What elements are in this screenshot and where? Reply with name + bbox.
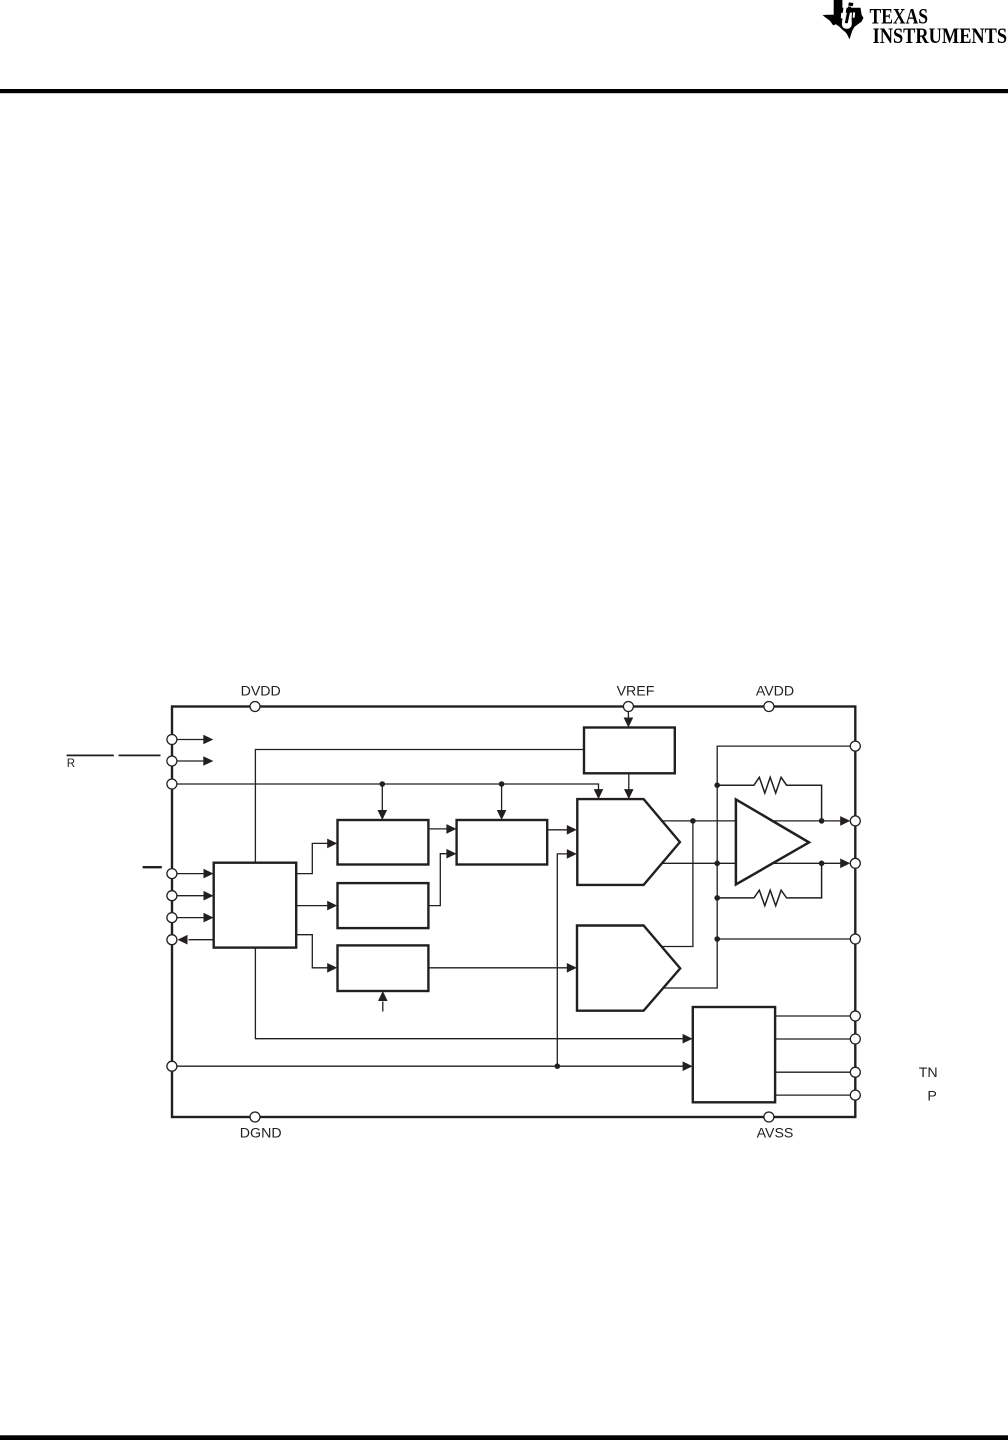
arrow into interface pin1	[204, 869, 214, 879]
wire box4 to DAC2	[428, 967, 568, 969]
pin right 7	[850, 1067, 860, 1077]
arrow stub1	[203, 735, 213, 745]
wire interface to box1	[296, 843, 328, 873]
svg-text:P: P	[927, 1089, 936, 1105]
power control block U5	[693, 1007, 775, 1102]
register box3	[338, 883, 429, 928]
DAC U4	[577, 926, 680, 1011]
DAC U3	[577, 799, 680, 885]
pin right 5	[850, 1011, 860, 1021]
arrow into DAC2	[567, 963, 577, 973]
wire DAC1 output P to amplifier and pin	[663, 820, 841, 822]
wire input stub 2 (RST)	[177, 760, 204, 762]
svg-text:TN: TN	[919, 1065, 938, 1081]
pin left 5	[167, 891, 177, 901]
wire power block output 3	[775, 1071, 855, 1073]
pin left 7	[167, 935, 177, 945]
wire clock stub into box4	[382, 1002, 384, 1012]
junction bottom control line	[555, 1063, 561, 1069]
arrow out of interface	[178, 935, 188, 945]
junction R1 right at output P	[819, 818, 825, 824]
wire input stub 1	[177, 739, 204, 741]
wire node to DAC1 lower input	[557, 854, 568, 1066]
wire DAC2 upper output to node P	[662, 821, 693, 947]
wire control net from reference box to power block	[255, 750, 683, 1039]
TI logo	[823, 0, 1008, 48]
serial interface box U1	[214, 863, 297, 948]
pin AVSS	[764, 1112, 774, 1122]
overbar segment 2 of RST label	[119, 755, 161, 757]
wire mid output pin	[717, 938, 855, 940]
pin left 6	[167, 913, 177, 923]
pin right 6	[850, 1034, 860, 1044]
wire VREF pin to reference box	[627, 712, 629, 718]
arrow output N	[840, 859, 850, 869]
wire power block output 4	[775, 1094, 855, 1096]
arrow down into box1 top	[378, 810, 388, 820]
wire power block output 1	[775, 1015, 855, 1017]
arrow stub2	[203, 756, 213, 766]
arrow into DAC1 lower	[567, 849, 577, 859]
pin right 8	[850, 1090, 860, 1100]
wire interface to box3	[296, 905, 328, 907]
wire reference box to DAC1	[628, 773, 630, 789]
resistor R2 feedback	[717, 863, 821, 905]
pin right 4	[850, 934, 860, 944]
svg-text:AVSS: AVSS	[757, 1125, 794, 1141]
arrow into DAC1 upper	[567, 825, 577, 835]
pin DVDD	[250, 702, 260, 712]
pin right 2 output P	[850, 816, 860, 826]
overbar dash of left pin 4 label	[143, 866, 162, 868]
wire left pin 4 to interface	[177, 873, 204, 875]
arrow into box2 upper	[446, 824, 456, 834]
register box4	[338, 945, 429, 991]
arrow into box3 left	[327, 901, 337, 911]
svg-text:DGND: DGND	[240, 1125, 282, 1141]
svg-text:DVDD: DVDD	[241, 684, 281, 700]
junction feedback R2 left	[714, 895, 720, 901]
junction node DAC2 to line P	[690, 818, 696, 824]
pin DGND	[250, 1112, 260, 1122]
pin VREF	[623, 702, 633, 712]
junction feedback R1 left	[714, 782, 720, 788]
junction on data bus at box1	[380, 781, 386, 787]
arrow into box2 lower	[446, 849, 456, 859]
wire DAC1 output N to amplifier and pin	[662, 862, 841, 864]
arrow into box1 left	[327, 839, 337, 849]
arrow into interface pin2	[204, 891, 214, 901]
arrow down into DAC1 top b	[624, 789, 634, 799]
pin left 2 RST	[167, 756, 177, 766]
resistor R1 feedback	[717, 777, 821, 821]
wire interface output to pin	[189, 939, 214, 941]
wire interface to box4	[296, 935, 328, 968]
pin AVDD	[764, 702, 774, 712]
svg-text:VREF: VREF	[617, 684, 655, 700]
arrow down into box2 top	[497, 810, 507, 820]
wire power block output 2	[775, 1038, 855, 1040]
pin left 8	[167, 1061, 177, 1071]
pin left 4	[167, 869, 177, 879]
arrow into power block upper	[683, 1034, 693, 1044]
arrow into interface pin3	[204, 913, 214, 923]
junction R2 right at output N	[819, 861, 825, 867]
junction mid pin line	[714, 936, 720, 942]
pin left 3	[167, 779, 177, 789]
wire box2 to DAC1	[547, 829, 568, 831]
register box2	[457, 820, 548, 865]
arrow output P	[840, 816, 850, 826]
arrow into box4 left	[327, 963, 337, 973]
overbar segment 1 of RST label	[67, 755, 114, 757]
pin right 3 output N	[850, 858, 860, 868]
pin right 1	[850, 741, 860, 751]
pin left 1	[167, 735, 177, 745]
svg-text:R: R	[67, 758, 75, 770]
wire box3 to box2	[428, 854, 447, 906]
junction on data bus at box2	[499, 781, 505, 787]
chip boundary	[172, 707, 855, 1118]
wire left pin 5 to interface	[177, 895, 204, 897]
wire data input bus to registers	[177, 784, 599, 811]
wire left pin 6 to interface	[177, 917, 204, 919]
wire box1 to box2	[428, 828, 447, 830]
junction line N	[714, 861, 720, 867]
arrow up into box4 bottom	[378, 991, 388, 1001]
register box1	[338, 820, 429, 865]
reference box U2	[584, 728, 675, 774]
wire right top pin net	[664, 746, 856, 988]
arrow down into reference box	[624, 718, 634, 728]
svg-text:AVDD: AVDD	[756, 684, 794, 700]
svg-text:INSTRUMENTS: INSTRUMENTS	[873, 23, 1008, 48]
arrow down into DAC1 top a	[594, 789, 604, 799]
arrow into power block lower	[683, 1061, 693, 1071]
wire bottom-left pin to power block	[177, 1065, 684, 1067]
op-amp U6	[736, 799, 809, 884]
